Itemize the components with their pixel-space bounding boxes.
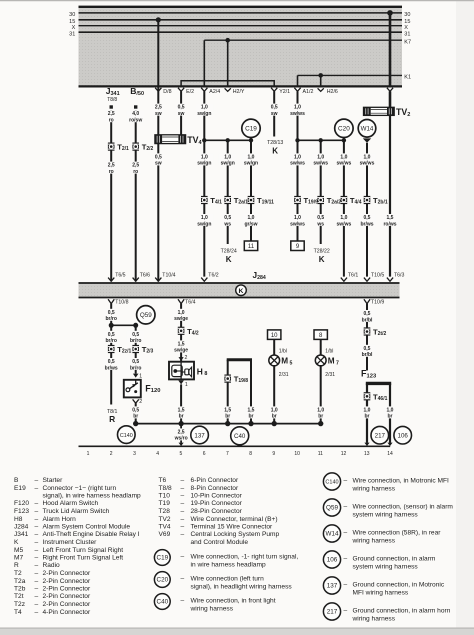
svg-text:1: 1	[139, 373, 142, 379]
svg-text:sw: sw	[155, 111, 162, 117]
svg-text:–: –	[181, 598, 185, 605]
svg-text:sw/ws: sw/ws	[290, 111, 305, 117]
svg-text:T2z: T2z	[14, 601, 25, 608]
svg-text:C40: C40	[157, 599, 169, 606]
svg-text:T2: T2	[14, 570, 22, 577]
svg-text:1,0: 1,0	[364, 154, 371, 160]
svg-text:–: –	[35, 531, 39, 538]
svg-text:–: –	[35, 516, 39, 523]
svg-text:–: –	[35, 586, 39, 593]
svg-text:30: 30	[69, 12, 75, 18]
svg-text:1,0: 1,0	[294, 215, 301, 221]
svg-text:Wire connection, (sensor) in a: Wire connection, (sensor) in alarm	[353, 504, 454, 511]
svg-text:sw/ws: sw/ws	[313, 161, 328, 167]
svg-text:0,5: 0,5	[108, 310, 115, 316]
svg-text:Wire connection (58R), in rear: Wire connection (58R), in rear	[353, 530, 442, 537]
svg-text:C20: C20	[338, 126, 350, 133]
svg-text:1,5: 1,5	[248, 407, 255, 413]
svg-text:br: br	[388, 414, 393, 420]
svg-text:137: 137	[327, 583, 338, 590]
svg-text:br/ws: br/ws	[105, 365, 118, 371]
svg-text:2: 2	[184, 355, 187, 361]
svg-text:1: 1	[185, 382, 188, 388]
svg-text:C19: C19	[245, 126, 257, 133]
svg-text:–: –	[181, 493, 185, 500]
svg-text:ro/sw: ro/sw	[129, 118, 142, 124]
svg-text:1,0: 1,0	[317, 407, 324, 413]
svg-text:T10/5: T10/5	[371, 273, 384, 279]
svg-text:–: –	[344, 608, 348, 615]
svg-text:T8/8: T8/8	[159, 485, 173, 492]
svg-text:0,5: 0,5	[364, 311, 371, 317]
svg-text:1,0: 1,0	[201, 105, 208, 111]
svg-text:–: –	[181, 485, 185, 492]
svg-text:system wiring harness: system wiring harness	[353, 512, 419, 519]
svg-text:Ground connection, in alarm ho: Ground connection, in alarm horn	[353, 608, 451, 615]
svg-text:br/bl: br/bl	[362, 317, 373, 323]
svg-text:Wire Connector, terminal (B+): Wire Connector, terminal (B+)	[191, 516, 278, 523]
svg-text:X: X	[72, 25, 76, 31]
svg-text:R: R	[109, 414, 115, 424]
svg-text:E/2: E/2	[186, 89, 194, 95]
svg-text:–: –	[181, 516, 185, 523]
svg-text:TV2: TV2	[159, 516, 171, 523]
svg-text:Starter: Starter	[43, 477, 64, 484]
svg-text:sw/gn: sw/gn	[197, 111, 211, 117]
svg-text:T6/5: T6/5	[115, 273, 125, 279]
svg-text:–: –	[181, 576, 185, 583]
svg-text:–: –	[181, 477, 185, 484]
svg-text:T6/2: T6/2	[208, 273, 218, 279]
svg-text:Y2/1: Y2/1	[279, 89, 290, 95]
svg-text:Wire connection (left turn: Wire connection (left turn	[191, 576, 265, 583]
svg-text:8-Pin Connector: 8-Pin Connector	[191, 485, 239, 492]
svg-text:10: 10	[271, 333, 278, 339]
svg-text:–: –	[344, 504, 348, 511]
svg-text:–: –	[35, 477, 39, 484]
svg-text:0,5: 0,5	[132, 359, 139, 365]
svg-text:sw/ws: sw/ws	[290, 221, 305, 227]
svg-text:Wire connection, in Motronic M: Wire connection, in Motronic MFI	[353, 478, 450, 485]
svg-text:T6/6: T6/6	[140, 273, 150, 279]
svg-text:–: –	[35, 555, 39, 562]
svg-text:11: 11	[248, 244, 255, 250]
svg-text:0,5: 0,5	[317, 215, 324, 221]
svg-text:4,0: 4,0	[132, 111, 139, 117]
svg-text:2,5: 2,5	[178, 429, 185, 435]
svg-text:4-Pin Connector: 4-Pin Connector	[43, 609, 91, 616]
svg-text:Terminal 15 Wire Connector: Terminal 15 Wire Connector	[191, 524, 274, 531]
svg-text:1,0: 1,0	[294, 154, 301, 160]
svg-text:8: 8	[249, 451, 252, 457]
svg-text:1,0: 1,0	[248, 154, 255, 160]
svg-text:2,5: 2,5	[132, 163, 139, 169]
svg-text:signal), in wire harness headl: signal), in wire harness headlamp	[43, 493, 142, 500]
svg-text:0,5: 0,5	[132, 407, 139, 413]
svg-text:0,5: 0,5	[178, 105, 185, 111]
svg-text:1,0: 1,0	[201, 215, 208, 221]
svg-text:MFI wiring harness: MFI wiring harness	[353, 590, 409, 597]
svg-text:br: br	[272, 414, 277, 420]
svg-text:–: –	[35, 539, 39, 546]
svg-text:Anti-Theft Engine Disable Rela: Anti-Theft Engine Disable Relay I	[43, 531, 140, 538]
svg-text:–: –	[35, 609, 39, 616]
svg-text:T6: T6	[159, 477, 167, 484]
svg-text:br/ro: br/ro	[106, 338, 117, 344]
svg-text:H2/Y: H2/Y	[233, 89, 245, 95]
svg-text:F123: F123	[14, 508, 29, 515]
svg-text:T28: T28	[159, 508, 171, 515]
svg-text:br: br	[365, 414, 370, 420]
svg-text:Radio: Radio	[43, 562, 61, 569]
svg-text:ro/ws: ro/ws	[383, 221, 396, 227]
svg-text:–: –	[181, 531, 185, 538]
svg-text:K: K	[226, 255, 232, 264]
svg-text:12: 12	[341, 451, 347, 457]
svg-text:30: 30	[404, 12, 410, 18]
svg-text:Alarm System Control Module: Alarm System Control Module	[43, 524, 131, 531]
svg-text:br/ro: br/ro	[130, 365, 141, 371]
svg-text:106: 106	[327, 557, 338, 564]
svg-text:1/bl: 1/bl	[279, 349, 287, 355]
svg-text:R: R	[14, 562, 19, 569]
svg-text:–: –	[344, 556, 348, 563]
svg-text:–: –	[35, 547, 39, 554]
svg-text:T10/8: T10/8	[115, 299, 128, 305]
svg-text:1,0: 1,0	[248, 215, 255, 221]
svg-text:Ground connection, in Motronic: Ground connection, in Motronic	[353, 582, 445, 589]
svg-text:V69: V69	[159, 531, 171, 538]
svg-text:1,0: 1,0	[201, 154, 208, 160]
svg-text:T28/13: T28/13	[267, 140, 283, 146]
svg-text:Instrument Cluster: Instrument Cluster	[43, 539, 98, 546]
svg-text:28-Pin Connector: 28-Pin Connector	[191, 508, 243, 515]
svg-text:and Control Module: and Control Module	[191, 539, 249, 546]
svg-text:TV4: TV4	[159, 524, 171, 531]
svg-text:T10: T10	[159, 493, 171, 500]
svg-text:Truck Lid Alarm Switch: Truck Lid Alarm Switch	[43, 508, 110, 515]
svg-text:sw/ws: sw/ws	[337, 221, 352, 227]
svg-text:14: 14	[387, 451, 393, 457]
svg-text:2/31: 2/31	[279, 372, 289, 378]
svg-text:T4: T4	[14, 609, 22, 616]
svg-text:D/8: D/8	[163, 89, 171, 95]
svg-text:Connector −1− (right turn: Connector −1− (right turn	[43, 485, 117, 492]
svg-text:2-Pin Connector: 2-Pin Connector	[43, 586, 91, 593]
svg-text:br/ws: br/ws	[360, 221, 373, 227]
svg-text:–: –	[35, 601, 39, 608]
svg-text:7: 7	[226, 451, 229, 457]
svg-text:sw/ge: sw/ge	[174, 348, 188, 354]
svg-text:137: 137	[194, 432, 205, 439]
svg-text:Central Locking System Pump: Central Locking System Pump	[191, 531, 280, 538]
svg-text:–: –	[181, 508, 185, 515]
svg-text:ro: ro	[133, 169, 138, 175]
svg-text:Ground connection, in alarm: Ground connection, in alarm	[353, 556, 436, 563]
svg-text:F120: F120	[14, 500, 29, 507]
svg-text:in wire harness headlamp: in wire harness headlamp	[191, 562, 266, 569]
svg-text:3: 3	[133, 451, 136, 457]
svg-text:6-Pin Connector: 6-Pin Connector	[191, 477, 239, 484]
svg-text:B: B	[14, 477, 19, 484]
svg-text:br: br	[225, 414, 230, 420]
svg-text:–: –	[35, 578, 39, 585]
svg-text:Q59: Q59	[140, 312, 152, 319]
svg-text:br: br	[318, 414, 323, 420]
svg-text:1,0: 1,0	[224, 154, 231, 160]
svg-text:wiring harness: wiring harness	[190, 606, 234, 613]
svg-text:6: 6	[203, 451, 206, 457]
svg-text:2: 2	[110, 451, 113, 457]
svg-text:sw/gn: sw/gn	[244, 161, 258, 167]
svg-text:2-Pin Connector: 2-Pin Connector	[43, 601, 91, 608]
svg-text:T2t: T2t	[14, 593, 24, 600]
svg-text:ws: ws	[223, 221, 231, 227]
svg-text:4: 4	[156, 451, 159, 457]
svg-text:ro: ro	[109, 169, 114, 175]
svg-text:br: br	[179, 414, 184, 420]
svg-text:J284: J284	[14, 524, 29, 531]
svg-text:2-Pin Connector: 2-Pin Connector	[43, 570, 91, 577]
svg-text:J341: J341	[14, 531, 29, 538]
svg-text:br: br	[133, 414, 138, 420]
svg-text:C19: C19	[157, 555, 169, 562]
svg-text:K: K	[272, 146, 278, 155]
svg-text:2,5: 2,5	[155, 105, 162, 111]
svg-text:0,5: 0,5	[108, 359, 115, 365]
svg-text:1,0: 1,0	[294, 105, 301, 111]
svg-text:sw/ge: sw/ge	[174, 316, 188, 322]
svg-text:1: 1	[87, 451, 90, 457]
svg-text:1,5: 1,5	[224, 407, 231, 413]
svg-text:ws/ro: ws/ro	[174, 436, 188, 442]
svg-text:2,5: 2,5	[108, 111, 115, 117]
svg-text:X: X	[404, 25, 408, 31]
svg-text:H2/6: H2/6	[327, 89, 338, 95]
svg-text:Left Front Turn Signal Right: Left Front Turn Signal Right	[43, 547, 124, 554]
svg-text:T2a: T2a	[14, 578, 26, 585]
svg-text:A1/2: A1/2	[303, 89, 314, 95]
svg-text:–: –	[35, 500, 39, 507]
svg-text:0,5: 0,5	[224, 215, 231, 221]
svg-text:sw: sw	[271, 111, 278, 117]
svg-text:system wiring harness: system wiring harness	[353, 564, 419, 571]
svg-text:H8: H8	[14, 516, 23, 523]
svg-text:–: –	[35, 524, 39, 531]
svg-text:T10/4: T10/4	[162, 273, 175, 279]
svg-text:217: 217	[375, 433, 386, 440]
svg-text:31: 31	[69, 31, 75, 37]
svg-text:31: 31	[404, 31, 410, 37]
svg-text:W14: W14	[361, 126, 374, 133]
svg-text:C40: C40	[234, 433, 246, 440]
svg-text:–: –	[35, 508, 39, 515]
svg-text:sw: sw	[178, 111, 185, 117]
svg-text:1,0: 1,0	[387, 407, 394, 413]
svg-text:–: –	[35, 570, 39, 577]
svg-text:1,5: 1,5	[178, 407, 185, 413]
svg-text:2: 2	[139, 399, 142, 405]
svg-text:1,5: 1,5	[387, 215, 394, 221]
svg-text:T6/1: T6/1	[348, 273, 358, 279]
svg-text:M5: M5	[14, 547, 23, 554]
svg-text:T6/4: T6/4	[185, 299, 195, 305]
svg-text:T2b: T2b	[14, 586, 26, 593]
svg-text:T19: T19	[159, 500, 171, 507]
svg-text:signal), in headlight wiring h: signal), in headlight wiring harness	[191, 584, 293, 591]
svg-text:0,5: 0,5	[271, 105, 278, 111]
svg-text:10: 10	[294, 451, 300, 457]
svg-text:Wire connection, in front ligh: Wire connection, in front light	[191, 598, 276, 605]
svg-text:106: 106	[398, 433, 409, 440]
svg-text:gr/sw: gr/sw	[244, 221, 257, 227]
svg-text:T28/22: T28/22	[314, 248, 330, 254]
svg-text:Q59: Q59	[326, 505, 338, 512]
svg-text:br/ro: br/ro	[130, 338, 141, 344]
svg-text:K1: K1	[404, 75, 411, 81]
svg-text:br/bl: br/bl	[362, 352, 373, 358]
svg-text:0,5: 0,5	[155, 154, 162, 160]
svg-text:br/ro: br/ro	[106, 316, 117, 322]
svg-text:9: 9	[272, 451, 275, 457]
svg-text:10-Pin Connector: 10-Pin Connector	[191, 493, 243, 500]
svg-text:wiring harness: wiring harness	[352, 538, 396, 545]
svg-text:2-Pin Connector: 2-Pin Connector	[43, 593, 91, 600]
svg-text:W14: W14	[326, 531, 339, 538]
svg-text:K: K	[239, 288, 244, 295]
svg-text:ro: ro	[109, 118, 114, 124]
svg-text:wiring harness: wiring harness	[352, 616, 396, 623]
svg-text:1,0: 1,0	[340, 215, 347, 221]
svg-text:sw/gn: sw/gn	[197, 161, 211, 167]
svg-text:T10/9: T10/9	[371, 299, 384, 305]
svg-text:–: –	[35, 593, 39, 600]
svg-text:sw/ws: sw/ws	[337, 161, 352, 167]
svg-text:2,5: 2,5	[108, 163, 115, 169]
svg-text:–: –	[344, 582, 348, 589]
svg-text:1,5: 1,5	[178, 341, 185, 347]
svg-text:2/31: 2/31	[325, 372, 335, 378]
svg-text:1,0: 1,0	[271, 407, 278, 413]
svg-text:1,0: 1,0	[317, 154, 324, 160]
svg-text:Wire connection, -1- right tur: Wire connection, -1- right turn signal,	[191, 554, 299, 561]
svg-text:C140: C140	[120, 433, 133, 439]
svg-text:sw: sw	[155, 161, 162, 167]
svg-text:C140: C140	[325, 480, 338, 486]
svg-text:K7: K7	[404, 39, 411, 45]
svg-text:–: –	[181, 524, 185, 531]
svg-text:1,0: 1,0	[364, 407, 371, 413]
svg-text:1/bl: 1/bl	[325, 349, 333, 355]
svg-text:sw/ws: sw/ws	[360, 161, 375, 167]
svg-text:–: –	[181, 554, 185, 561]
svg-text:sw/ws: sw/ws	[290, 161, 305, 167]
svg-text:T6/3: T6/3	[394, 273, 404, 279]
svg-text:1,0: 1,0	[178, 310, 185, 316]
svg-text:sw/gn: sw/gn	[197, 221, 211, 227]
svg-text:ws: ws	[316, 221, 324, 227]
svg-text:11: 11	[318, 451, 323, 457]
svg-text:Alarm Horn: Alarm Horn	[43, 516, 77, 523]
svg-text:C20: C20	[157, 577, 169, 584]
svg-text:sw/gn: sw/gn	[221, 161, 235, 167]
svg-text:A2/4: A2/4	[209, 89, 220, 95]
svg-text:1,0: 1,0	[340, 154, 347, 160]
svg-text:0,5: 0,5	[132, 332, 139, 338]
svg-text:K: K	[14, 539, 19, 546]
svg-text:M7: M7	[14, 555, 23, 562]
svg-text:–: –	[181, 500, 185, 507]
svg-text:Hood Alarm Switch: Hood Alarm Switch	[43, 500, 99, 507]
svg-text:br: br	[249, 414, 254, 420]
svg-text:2-Pin Connector: 2-Pin Connector	[43, 578, 91, 585]
svg-text:–: –	[344, 530, 348, 537]
svg-text:T28/24: T28/24	[221, 248, 237, 254]
svg-text:–: –	[344, 478, 348, 485]
svg-text:19-Pin Connector: 19-Pin Connector	[191, 500, 243, 507]
svg-text:0,5: 0,5	[364, 215, 371, 221]
svg-text:T8/8: T8/8	[107, 97, 117, 103]
svg-text:–: –	[35, 485, 39, 492]
svg-text:K: K	[319, 255, 325, 264]
svg-text:5: 5	[180, 451, 183, 457]
svg-text:wiring harness: wiring harness	[352, 486, 396, 493]
svg-text:Right Front Turn Signal Left: Right Front Turn Signal Left	[43, 555, 124, 562]
svg-text:217: 217	[327, 609, 338, 616]
svg-text:E19: E19	[14, 485, 26, 492]
svg-text:0,5: 0,5	[108, 332, 115, 338]
svg-text:13: 13	[364, 451, 370, 457]
svg-text:–: –	[35, 562, 39, 569]
svg-text:0,5: 0,5	[364, 346, 371, 352]
